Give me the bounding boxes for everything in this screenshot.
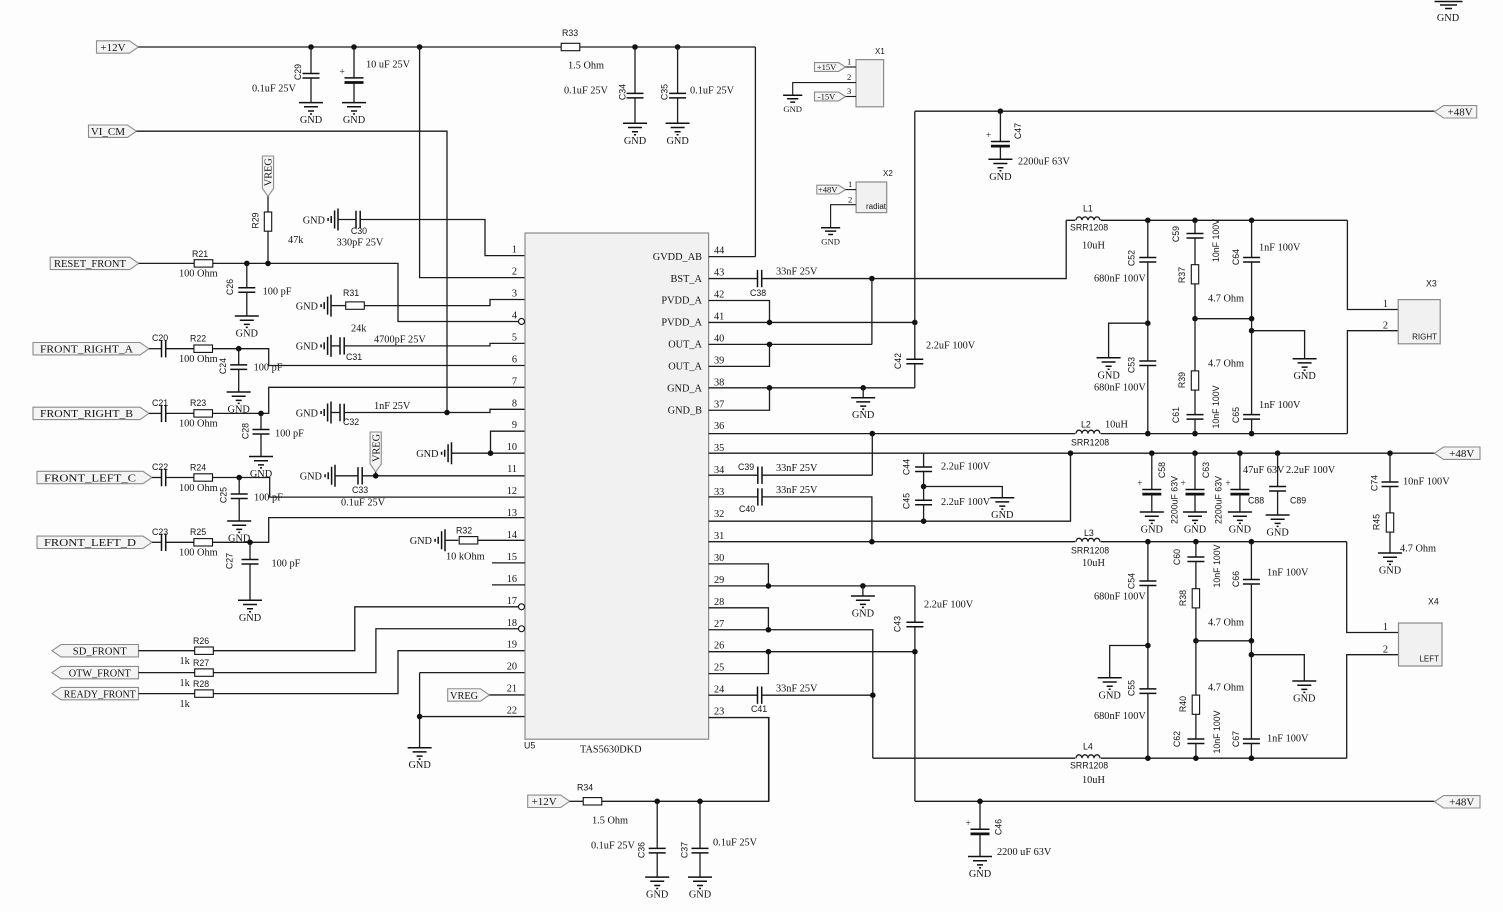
svg-text:2: 2 <box>847 72 851 82</box>
svg-text:L4: L4 <box>1083 742 1093 752</box>
junction C41/OUT_D <box>870 692 876 698</box>
svg-text:100 pF: 100 pF <box>275 429 304 440</box>
svg-text:18: 18 <box>507 618 517 629</box>
pin stubs 15,16 <box>492 562 525 564</box>
junction 26/C43 col <box>912 649 918 655</box>
svg-text:2.2uF 100V: 2.2uF 100V <box>941 462 991 473</box>
junction L2/C65 <box>1249 431 1255 437</box>
resistor R34 <box>570 800 584 802</box>
wire pin 22 <box>420 716 525 718</box>
svg-text:2200uF 63V: 2200uF 63V <box>1214 476 1224 524</box>
svg-text:+48V: +48V <box>1449 797 1474 809</box>
svg-text:10nF 100V: 10nF 100V <box>1403 477 1450 488</box>
svg-text:1nF 100V: 1nF 100V <box>1267 568 1309 579</box>
svg-text:PVDD_A: PVDD_A <box>661 296 702 307</box>
ground pins 20/22 <box>408 748 432 772</box>
svg-text:31: 31 <box>714 531 724 542</box>
junction D/C27 <box>247 540 253 546</box>
junction 27/28 <box>766 627 772 633</box>
net flag RESET_FRONT <box>50 257 139 269</box>
svg-text:2: 2 <box>848 194 852 204</box>
svg-text:4700pF 25V: 4700pF 25V <box>374 335 426 346</box>
svg-text:100 pF: 100 pF <box>254 363 283 374</box>
svg-text:1.5 Ohm: 1.5 Ohm <box>568 61 604 72</box>
capacitor C21 <box>149 412 162 414</box>
svg-text:GND: GND <box>783 104 802 114</box>
wire pin 31 OUT_C / L3 row <box>709 541 1347 543</box>
wire C39 return <box>871 434 873 476</box>
wire VREG to pin 21 <box>489 694 525 696</box>
svg-text:1nF 100V: 1nF 100V <box>1259 243 1301 254</box>
svg-text:0.1uF 25V: 0.1uF 25V <box>564 86 609 97</box>
svg-text:24: 24 <box>714 685 724 696</box>
svg-text:C45: C45 <box>902 493 912 509</box>
svg-text:R23: R23 <box>190 398 206 408</box>
wire pin 43 BST_A / capacitor C38 <box>709 278 758 280</box>
ground (top right) <box>1435 2 1463 9</box>
svg-text:FRONT_LEFT_C: FRONT_LEFT_C <box>44 472 136 484</box>
ground C89 <box>1266 515 1290 539</box>
wire pin 42 PVDD_A <box>709 301 770 323</box>
svg-text:R29: R29 <box>251 212 261 228</box>
svg-text:1: 1 <box>848 179 852 189</box>
svg-text:10nF 100V: 10nF 100V <box>1211 219 1221 262</box>
svg-text:2.2uF 100V: 2.2uF 100V <box>926 341 976 352</box>
svg-text:C24: C24 <box>218 358 228 374</box>
wire L1 row OUT_A <box>1066 219 1347 221</box>
junction RESET/C26 <box>244 261 250 267</box>
svg-text:10uH: 10uH <box>1105 420 1128 431</box>
wire R33 output rail <box>580 46 756 48</box>
capacitor C23 <box>152 541 162 543</box>
junction C/C25 <box>236 475 242 481</box>
svg-text:C44: C44 <box>902 459 912 475</box>
svg-text:LEFT: LEFT <box>1419 655 1439 664</box>
svg-text:100 pF: 100 pF <box>254 493 283 504</box>
capacitor C53 680nF <box>1139 361 1156 366</box>
wire pin 38 GND_A <box>709 387 915 389</box>
capacitor C37 <box>699 801 701 848</box>
svg-text:R40: R40 <box>1178 696 1188 712</box>
svg-text:100 Ohm: 100 Ohm <box>179 548 218 559</box>
connector X1 body <box>856 60 884 107</box>
junction C66 mid2 <box>1249 652 1255 658</box>
pin circles 4,17,18 <box>519 318 525 324</box>
junction B/C28 <box>258 411 264 417</box>
wire pin 39 OUT_A <box>709 344 770 366</box>
junction L1/C59 <box>1192 218 1198 224</box>
svg-text:7: 7 <box>512 376 517 387</box>
svg-text:X3: X3 <box>1426 279 1437 289</box>
svg-text:2: 2 <box>1383 320 1388 331</box>
capacitor C52 680nF <box>1147 220 1149 257</box>
svg-text:R21: R21 <box>192 249 208 259</box>
wire +48V bottom rail <box>915 800 1435 802</box>
capacitor C43 <box>914 586 916 622</box>
capacitor C26 <box>246 263 248 287</box>
capacitor C61 10nF <box>1194 390 1196 415</box>
svg-text:22: 22 <box>507 706 517 717</box>
svg-text:36: 36 <box>714 421 724 432</box>
wire pin 30 <box>709 564 769 586</box>
svg-text:GND: GND <box>821 236 840 246</box>
junction R33/C35 <box>675 44 681 50</box>
svg-text:FRONT_RIGHT_B: FRONT_RIGHT_B <box>40 408 133 420</box>
wire pin 41 PVDD_A <box>709 321 915 323</box>
svg-text:R32: R32 <box>456 526 472 536</box>
svg-text:0.1uF 25V: 0.1uF 25V <box>690 86 735 97</box>
junction +12V/pin2 drop <box>417 44 423 50</box>
capacitor C36 <box>656 801 658 848</box>
wire pin 36 OUT_B to L2 row <box>709 433 1348 435</box>
svg-text:10 uF 25V: 10 uF 25V <box>366 60 411 71</box>
svg-text:16: 16 <box>507 574 517 585</box>
ground C34 <box>623 123 647 147</box>
capacitor C24 <box>238 349 240 365</box>
wire pin 33 BST_C / capacitor C40 <box>709 496 758 498</box>
svg-text:GND_B: GND_B <box>668 405 702 416</box>
junction GND row/gnd sym <box>860 385 866 391</box>
svg-text:8: 8 <box>512 398 517 409</box>
svg-text:32: 32 <box>714 509 724 520</box>
svg-text:C53: C53 <box>1127 357 1137 373</box>
svg-text:100 Ohm: 100 Ohm <box>179 269 218 280</box>
wire X3 pin 2 <box>1347 331 1398 434</box>
svg-text:C28: C28 <box>240 423 250 439</box>
svg-text:GND: GND <box>296 301 319 312</box>
svg-text:X4: X4 <box>1428 597 1439 607</box>
svg-text:C62: C62 <box>1172 731 1182 747</box>
svg-text:R34: R34 <box>577 783 593 793</box>
wire pin 40 OUT_A <box>709 343 872 345</box>
svg-text:C31: C31 <box>346 352 362 362</box>
capacitor C20 <box>149 348 162 350</box>
svg-text:2.2uF 100V: 2.2uF 100V <box>1286 465 1336 476</box>
svg-text:30: 30 <box>714 553 724 564</box>
net flag +48V (X2) <box>817 185 846 194</box>
svg-text:1nF 100V: 1nF 100V <box>1259 400 1301 411</box>
svg-text:C89: C89 <box>1290 496 1306 506</box>
capacitor C60 10nF <box>1195 542 1197 557</box>
svg-text:33nF 25V: 33nF 25V <box>776 267 818 278</box>
svg-text:OUT_A: OUT_A <box>668 362 702 373</box>
net flag +15V <box>815 63 846 72</box>
svg-text:100 pF: 100 pF <box>272 559 301 570</box>
svg-text:READY_FRONT: READY_FRONT <box>64 688 136 700</box>
net flag FRONT_RIGHT_B <box>33 407 149 419</box>
svg-text:44: 44 <box>714 246 724 257</box>
wire X3 pin 1 <box>1347 220 1398 309</box>
svg-text:41: 41 <box>714 311 724 322</box>
svg-text:U5: U5 <box>524 741 535 751</box>
svg-text:4.7 Ohm: 4.7 Ohm <box>1208 683 1244 694</box>
svg-text:10nF 100V: 10nF 100V <box>1212 544 1222 587</box>
net flag +12V (bottom) <box>528 795 570 807</box>
wire pin 29 GVDD_CD <box>709 585 915 587</box>
junction OUT_A 39/40 <box>767 342 773 348</box>
svg-text:GND: GND <box>303 215 326 226</box>
wire pin 20 <box>420 672 525 674</box>
svg-text:C22: C22 <box>152 462 168 472</box>
svg-text:C32: C32 <box>343 417 359 427</box>
capacitor C66 1nF <box>1250 542 1252 580</box>
svg-text:VREG: VREG <box>371 433 382 462</box>
svg-text:1k: 1k <box>180 656 191 667</box>
svg-text:C34: C34 <box>618 84 628 100</box>
op-amp U5 TAS5630DKD body <box>525 233 709 739</box>
svg-text:R31: R31 <box>343 288 359 298</box>
svg-text:C27: C27 <box>225 553 235 569</box>
wire pin 24 BST_D / capacitor C41 <box>709 694 758 696</box>
svg-text:+15V: +15V <box>817 62 837 72</box>
capacitor C67 1nF <box>1250 641 1252 739</box>
junction L3/C60 <box>1193 539 1199 545</box>
svg-text:C42: C42 <box>893 353 903 369</box>
junction rail/C46 <box>977 799 983 805</box>
ground C29 <box>299 103 323 127</box>
capacitor C27 <box>249 542 251 559</box>
wire pin 23 <box>709 718 769 802</box>
capacitor C44 <box>923 453 925 467</box>
capacitor C58 2200uF <box>1149 450 1155 456</box>
net flag FRONT_RIGHT_A <box>33 343 149 355</box>
svg-text:43: 43 <box>714 268 724 279</box>
net flag +48V (mid) <box>1435 447 1481 459</box>
svg-text:R37: R37 <box>1177 267 1187 283</box>
svg-text:R22: R22 <box>190 334 206 344</box>
ground pin29 row <box>862 586 864 596</box>
svg-text:SRR1208: SRR1208 <box>1071 438 1109 448</box>
junction L4/C62 <box>1193 755 1199 761</box>
junction GND_A 37/38 <box>767 385 773 391</box>
ground left (bottom block) <box>1110 646 1148 678</box>
wire +12V to pin 2 <box>420 47 525 278</box>
net flag READY_FRONT <box>52 687 139 699</box>
svg-text:0.1uF 25V: 0.1uF 25V <box>252 84 297 95</box>
wire pin 20/22 gnd <box>419 673 421 748</box>
wire X4 pin 1 <box>1347 542 1399 633</box>
svg-text:C52: C52 <box>1127 250 1137 266</box>
wire X4 pin 2 <box>1347 655 1399 759</box>
resistor R26 <box>139 650 195 652</box>
net flag SD_FRONT <box>52 645 139 657</box>
junction R38/R40 mid <box>1193 638 1199 644</box>
junction C52/C53/gnd <box>1145 320 1151 326</box>
wire pin 28 <box>709 608 769 630</box>
svg-text:0.1uF 25V: 0.1uF 25V <box>591 841 636 852</box>
svg-text:11: 11 <box>507 464 517 475</box>
svg-text:PVDD_A: PVDD_A <box>661 318 702 329</box>
junction pin20/pin22 <box>417 714 423 720</box>
wire pin 25 <box>709 652 769 674</box>
svg-text:radiat: radiat <box>866 202 887 211</box>
svg-text:C36: C36 <box>637 842 647 858</box>
svg-text:1nF 100V: 1nF 100V <box>1267 734 1309 745</box>
wire L4 row OUT_D <box>873 757 1347 759</box>
wire to pin 19 <box>213 651 525 694</box>
svg-text:L2: L2 <box>1081 420 1091 430</box>
svg-text:C20: C20 <box>152 333 168 343</box>
capacitor C45 <box>915 500 932 505</box>
svg-text:C33: C33 <box>352 485 368 495</box>
svg-text:330pF 25V: 330pF 25V <box>337 238 384 249</box>
ground C46 <box>968 857 992 881</box>
svg-text:10uH: 10uH <box>1082 241 1105 252</box>
ground GND_A/B <box>862 388 864 398</box>
wire +12V rail to R33 <box>138 46 561 48</box>
svg-text:C54: C54 <box>1127 573 1137 589</box>
svg-text:C74: C74 <box>1370 475 1380 491</box>
ground C27 <box>238 600 262 624</box>
capacitor C62 10nF <box>1195 714 1197 739</box>
ground C30 <box>342 103 366 127</box>
wire pin 35 +48V rail <box>709 452 1435 454</box>
svg-text:L3: L3 <box>1084 528 1094 538</box>
svg-text:2: 2 <box>1383 644 1388 655</box>
net flag FRONT_LEFT_C <box>37 471 152 483</box>
junction C44/C45/gnd <box>921 484 927 490</box>
svg-text:100 Ohm: 100 Ohm <box>179 419 218 430</box>
ground C36 <box>645 877 669 901</box>
svg-text:+48V: +48V <box>1449 448 1474 460</box>
svg-text:4.7 Ohm: 4.7 Ohm <box>1208 359 1244 370</box>
svg-text:3: 3 <box>847 86 851 96</box>
net flag VREG (pin 21) <box>448 689 490 701</box>
svg-text:+48V: +48V <box>1448 107 1473 119</box>
resistor R27 <box>139 672 195 674</box>
svg-text:680nF 100V: 680nF 100V <box>1094 592 1146 603</box>
svg-text:C38: C38 <box>750 288 766 298</box>
net flag VREG (R29) <box>262 156 273 196</box>
svg-text:47k: 47k <box>288 235 304 246</box>
ground C35 <box>666 123 690 147</box>
resistor R38 4.7 <box>1192 589 1199 608</box>
junction PVDD_A 41/42 <box>767 320 773 326</box>
inductor L1 <box>1075 218 1101 223</box>
wire mid row 1 (bottom) <box>1196 640 1252 642</box>
junction BST_A/OUT_A drop <box>869 276 875 282</box>
svg-text:R24: R24 <box>190 462 206 472</box>
svg-text:GVDD_AB: GVDD_AB <box>653 252 702 263</box>
resistor R22 <box>166 348 194 350</box>
resistor R37 4.7 <box>1191 265 1198 284</box>
svg-text:26: 26 <box>714 641 724 652</box>
capacitor C47 2200uF <box>999 111 1001 141</box>
ground C63 <box>1183 512 1207 536</box>
junction A/C24 <box>236 346 242 352</box>
capacitor C34 <box>634 47 636 93</box>
connector X3 body <box>1398 300 1440 344</box>
svg-text:C66: C66 <box>1231 571 1241 587</box>
svg-text:28: 28 <box>714 597 724 608</box>
resistor R40 4.7 <box>1195 641 1197 695</box>
net flag -15V <box>815 92 846 101</box>
svg-text:2.2uF 100V: 2.2uF 100V <box>924 600 974 611</box>
net flag +48V (top) <box>1435 106 1477 118</box>
inductor L2 <box>1075 431 1101 436</box>
svg-text:-15V: -15V <box>818 91 836 101</box>
wire OUT_A bootstrap drop <box>871 279 873 345</box>
svg-text:X1: X1 <box>875 47 885 56</box>
junction 25/26 <box>766 649 772 655</box>
wire to pin 7 <box>213 387 526 413</box>
capacitor C64 1nF <box>1251 220 1253 257</box>
wire RESET_FRONT <box>139 262 195 264</box>
svg-text:39: 39 <box>714 355 724 366</box>
svg-text:20: 20 <box>507 662 517 673</box>
svg-text:10nF 100V: 10nF 100V <box>1212 710 1222 753</box>
svg-text:42: 42 <box>714 290 724 301</box>
junction 29/gnd <box>860 583 866 589</box>
junction C54/C55/gnd <box>1145 643 1151 649</box>
ground X2 <box>821 228 840 235</box>
svg-text:GND: GND <box>296 342 319 353</box>
junction PVDD_A/+48V <box>912 320 918 326</box>
ground right (top block) <box>1252 331 1305 359</box>
wire R21 to pin 4 <box>213 263 519 321</box>
capacitor C74 10nF <box>1387 450 1393 456</box>
svg-text:1: 1 <box>1383 622 1388 633</box>
svg-text:SRR1208: SRR1208 <box>1070 761 1108 771</box>
svg-text:38: 38 <box>714 377 724 388</box>
svg-text:L1: L1 <box>1083 204 1093 214</box>
svg-text:34: 34 <box>714 465 724 476</box>
junction R34/C37 <box>697 799 703 805</box>
svg-text:19: 19 <box>507 640 517 651</box>
junction VREG/pin11 <box>373 473 379 479</box>
wire to pin 12 <box>213 478 526 498</box>
svg-text:10uH: 10uH <box>1082 775 1105 786</box>
junction VI_CM/pin8 <box>444 410 450 416</box>
ground C25 <box>227 521 251 545</box>
capacitor C89 2.2uF <box>1275 450 1281 456</box>
svg-text:C37: C37 <box>680 842 690 858</box>
svg-text:10 kOhm: 10 kOhm <box>446 552 485 563</box>
svg-text:VREG: VREG <box>264 158 275 187</box>
svg-text:R45: R45 <box>1372 514 1382 530</box>
svg-text:BST_A: BST_A <box>671 274 703 285</box>
svg-text:100 Ohm: 100 Ohm <box>179 483 218 494</box>
svg-text:C23: C23 <box>152 527 168 537</box>
svg-text:C64: C64 <box>1231 249 1241 265</box>
svg-text:1: 1 <box>512 245 517 256</box>
svg-text:SRR1208: SRR1208 <box>1070 223 1108 233</box>
svg-text:100 Ohm: 100 Ohm <box>179 354 218 365</box>
svg-text:2: 2 <box>512 267 517 278</box>
ground C44/C45 <box>924 487 1003 498</box>
wire +48V to PVDD_A <box>914 111 916 322</box>
ground C58 <box>1140 512 1164 536</box>
svg-text:C21: C21 <box>152 398 168 408</box>
svg-text:GND_A: GND_A <box>667 384 702 395</box>
svg-text:C35: C35 <box>660 84 670 100</box>
svg-text:R39: R39 <box>1177 372 1187 388</box>
ground C26 <box>235 316 259 340</box>
resistor R45 4.7 <box>1386 513 1393 532</box>
svg-text:37: 37 <box>714 399 724 410</box>
svg-text:OUT_A: OUT_A <box>668 340 702 351</box>
capacitor C65 1nF <box>1251 319 1253 415</box>
junction OUT_B/C39 return <box>870 431 876 437</box>
ground right (bottom block) <box>1251 655 1304 681</box>
capacitor C88 47uF <box>1237 450 1243 456</box>
resistor R25 <box>166 541 194 543</box>
svg-text:TAS5630DKD: TAS5630DKD <box>580 745 642 756</box>
junction L4/C55 <box>1145 755 1151 761</box>
ground C28 <box>249 457 273 481</box>
resistor R29 <box>264 212 271 231</box>
svg-text:12: 12 <box>507 486 517 497</box>
